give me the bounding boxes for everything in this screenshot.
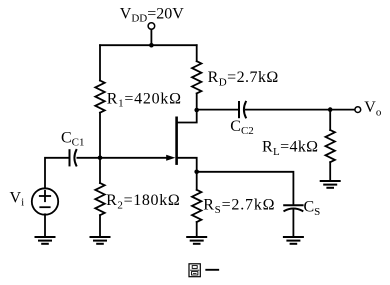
wire Vi to ground [44,214,46,237]
wire Vi to CC1 [45,158,70,189]
svg-text:R1=420kΩ: R1=420kΩ [107,90,182,109]
svg-text:RD=2.7kΩ: RD=2.7kΩ [208,69,279,88]
ground RS [187,237,206,244]
wire gate node to R2 [99,158,101,183]
resistor R2 [95,183,104,215]
ground Vi [36,237,55,244]
capacitor CC1 [70,150,77,166]
resistor RS [192,190,201,222]
wire VDD rail [100,44,197,46]
junction VDD rail [149,43,154,48]
capacitor CC2 [239,102,246,118]
wire CS to ground [292,210,294,237]
wire source node to CS [197,172,294,204]
junction output node [328,107,333,112]
ground CS [284,237,303,244]
wire source node to RS [196,172,198,190]
resistor RL [326,130,335,162]
wire output to RL [329,110,331,130]
wire RL to ground [329,162,331,181]
terminal Vo [355,107,361,113]
resistor RD [192,61,201,93]
wire R2 to ground [99,215,101,237]
junction drain node [194,108,199,113]
wire RD to drain node [196,93,198,110]
wire R1 to gate node [99,113,101,158]
wire source lead [178,158,197,172]
source Vi [32,188,58,214]
caption 圖一 [189,264,218,277]
power terminal VDD [148,23,155,30]
svg-text:VDD=20V: VDD=20V [120,5,184,24]
svg-text:RS=2.7kΩ: RS=2.7kΩ [203,197,275,216]
wire RS to ground [196,222,198,237]
ground R2 [91,237,110,244]
capacitor CS [284,205,302,211]
resistor R1 [95,81,104,113]
wire gate [77,157,169,159]
wire rail to RD [196,45,198,61]
svg-text:R2=180kΩ: R2=180kΩ [106,192,180,211]
wire drain lead [178,110,197,123]
transistor Q1 [166,118,176,164]
svg-text:RL=4kΩ: RL=4kΩ [262,139,318,158]
wire CC2 to output [246,109,354,111]
ground RL [321,181,340,188]
junction gate node [98,156,103,161]
junction source node [194,170,199,175]
wire rail to R1 [99,45,101,80]
wire drain node to CC2 [197,109,239,111]
